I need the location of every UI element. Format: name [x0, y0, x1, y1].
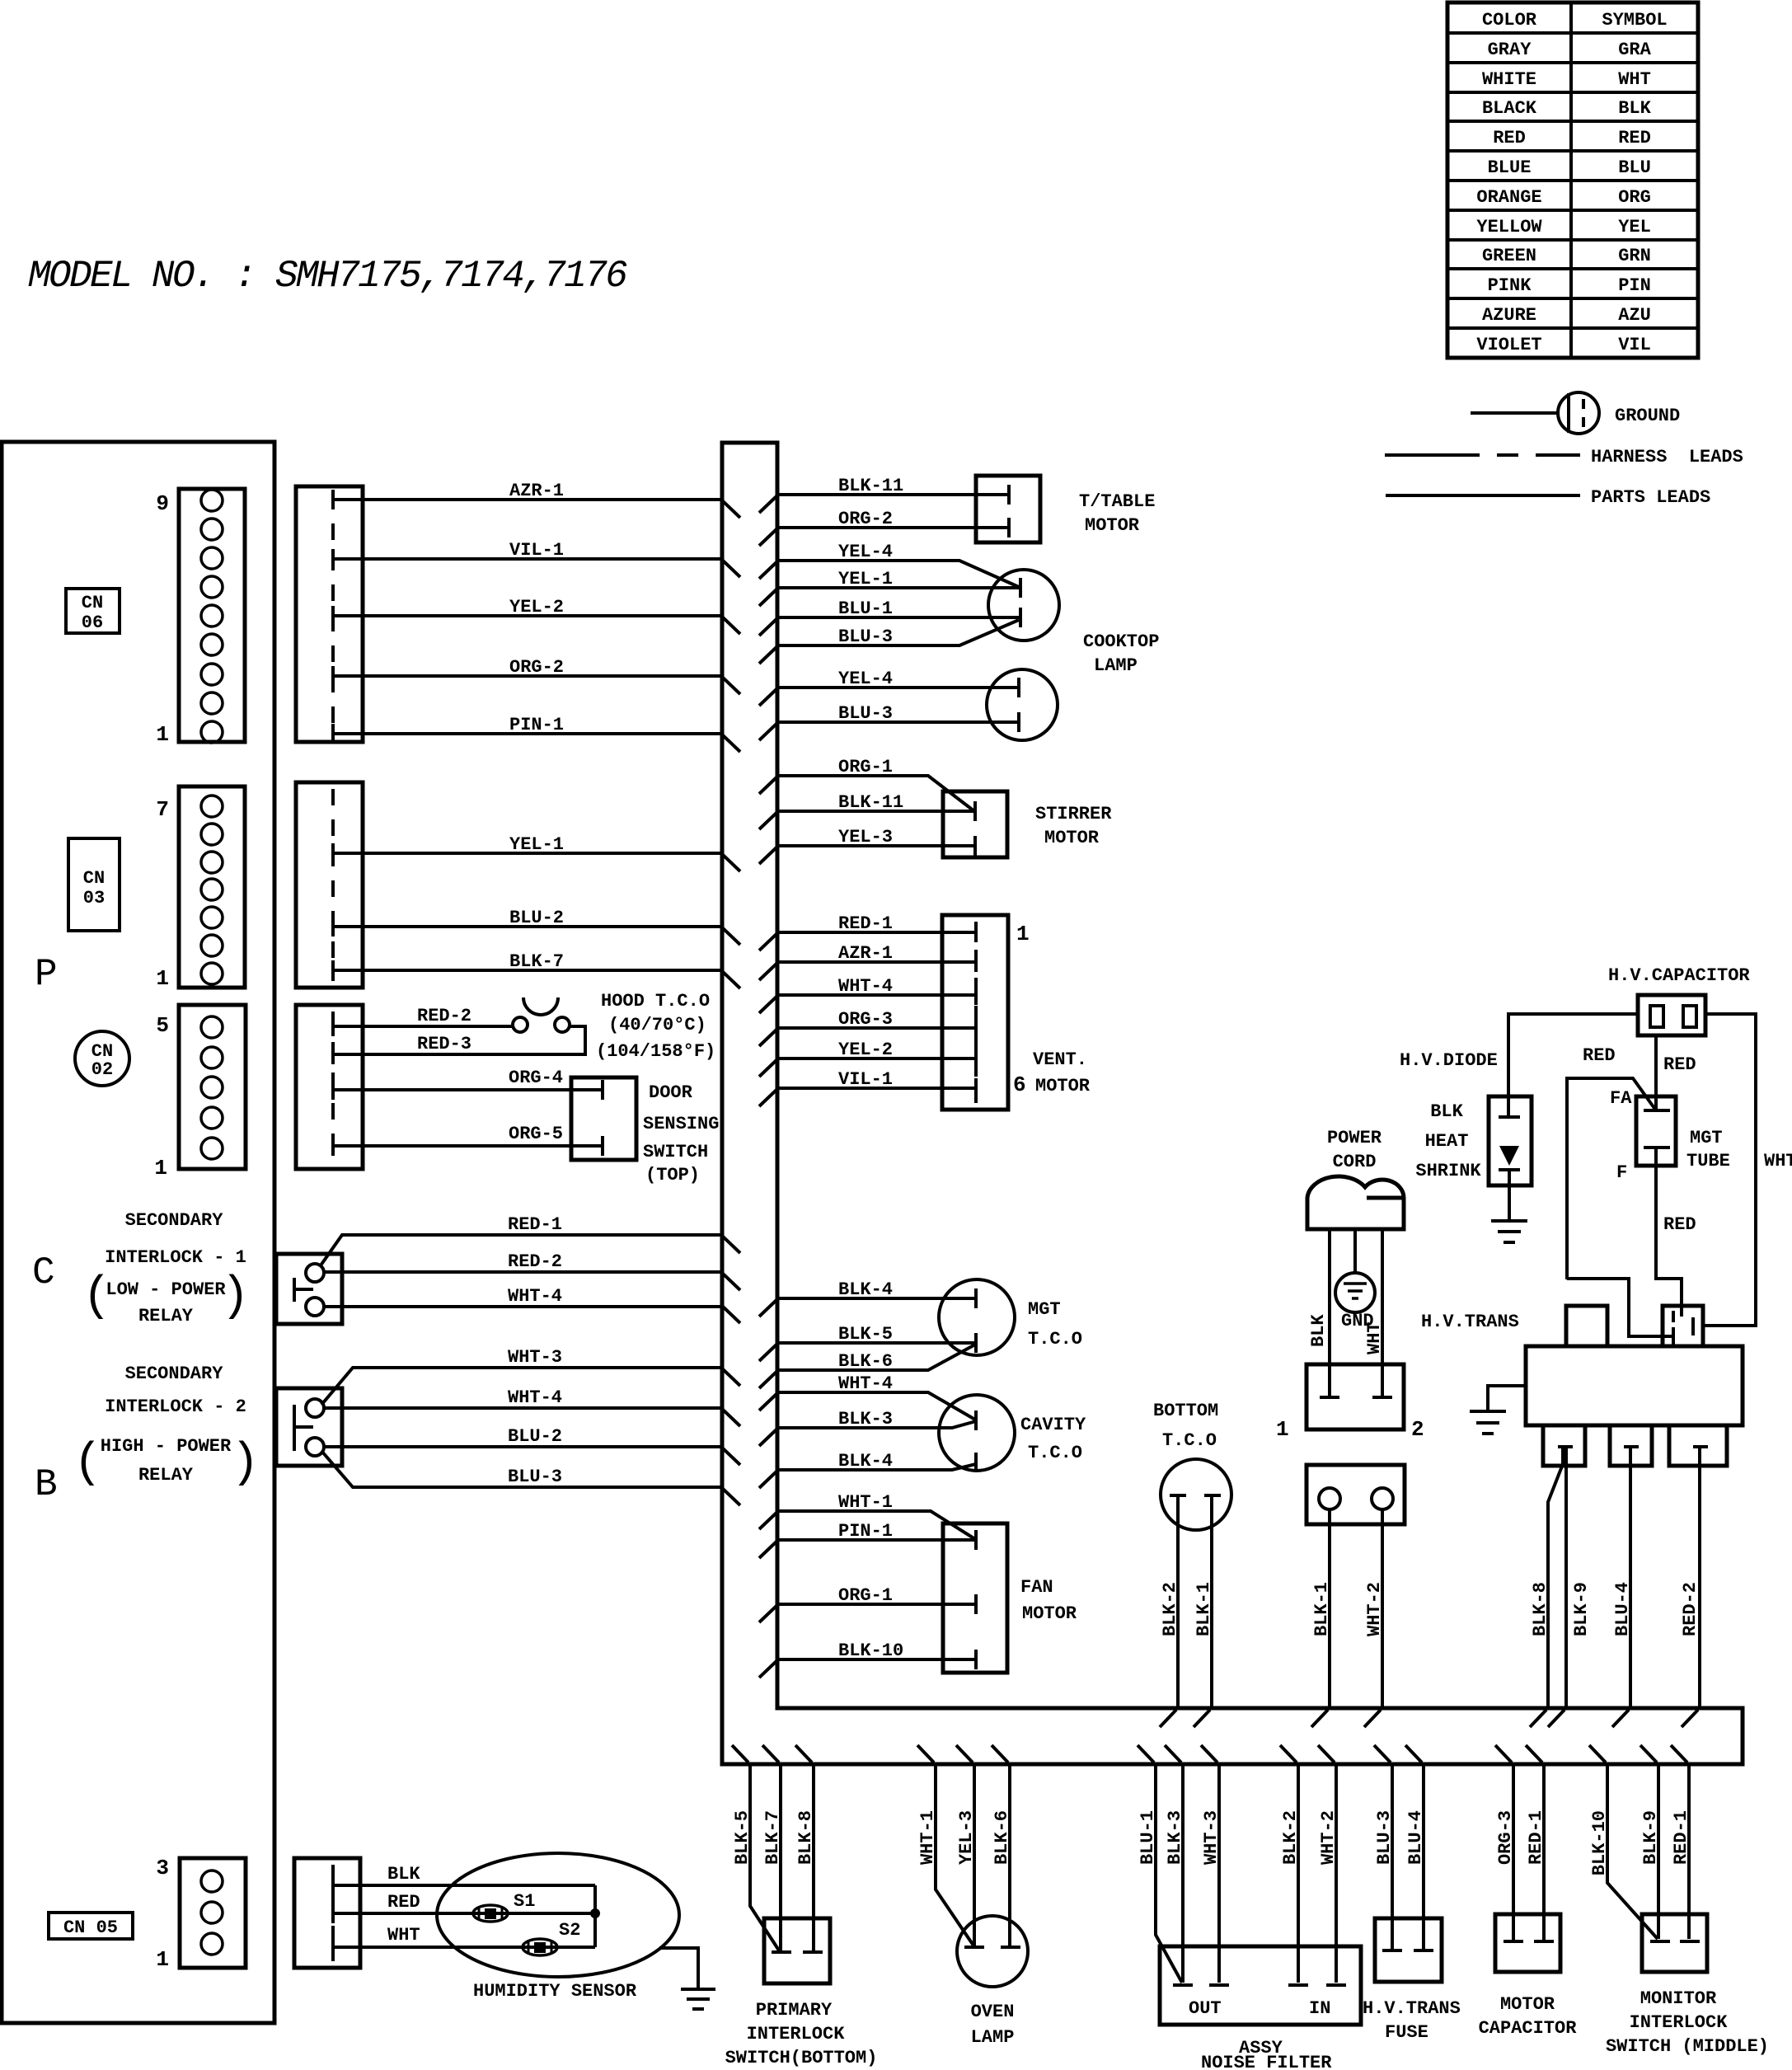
connector shell A (to CN06) pin tick: [331, 549, 335, 569]
trunk left tick y820: [723, 678, 740, 694]
MGT TCO circle: [939, 1279, 1015, 1355]
trunk right tick y1284: [759, 1060, 776, 1077]
relay 1 secondary interlock-1 switch: [276, 1254, 342, 1324]
svg-text:BLK-3: BLK-3: [838, 1409, 893, 1429]
CN03 label box: [68, 838, 120, 931]
power cord terminal box: [1306, 1364, 1404, 1429]
svg-text:BLK-8: BLK-8: [1530, 1582, 1550, 1636]
wire BLK-3 (noise filter): [1181, 1764, 1185, 1983]
wire BLK-6 (MGT TCO): [777, 1345, 975, 1370]
svg-text:BLK-10: BLK-10: [1589, 1810, 1610, 1875]
svg-text:H.V.TRANS: H.V.TRANS: [1421, 1312, 1519, 1332]
primary interlock switch box: [764, 1918, 830, 1983]
connector shell A (to CN06) pin tick: [331, 490, 335, 509]
wire BLU-1 (noise filter): [1156, 1764, 1182, 1983]
svg-text:RED: RED: [1663, 1054, 1696, 1075]
svg-text:COOKTOP: COOKTOP: [1083, 631, 1159, 652]
svg-text:BLU-3: BLU-3: [508, 1467, 562, 1487]
svg-text:06: 06: [82, 613, 103, 633]
CN06 pin circle 3: [201, 664, 223, 685]
svg-text:WHT-2: WHT-2: [1364, 1582, 1385, 1636]
CN05 pin circle 2: [201, 1902, 223, 1923]
svg-text:SWITCH (MIDDLE): SWITCH (MIDDLE): [1606, 2036, 1769, 2057]
svg-text:TUBE: TUBE: [1686, 1151, 1730, 1171]
CN05 pin circle 3: [201, 1871, 223, 1892]
H.V. transformer box: [1526, 1306, 1743, 1466]
thermistor S1: [473, 1905, 508, 1922]
svg-text:MODEL NO. : SMH7175,7174,7176: MODEL NO. : SMH7175,7174,7176: [28, 255, 627, 298]
fuse holder box: [1306, 1465, 1405, 1524]
wire GND (power cord): [1353, 1229, 1357, 1273]
connector CN02 5-pin: [179, 1005, 246, 1169]
svg-text:MOTOR: MOTOR: [1044, 828, 1100, 848]
CN03 pin circle 2: [201, 935, 223, 956]
transformer terminal tick a: [1672, 1311, 1675, 1322]
svg-text:MOTOR: MOTOR: [1085, 515, 1140, 536]
CN06 pin circle 6: [201, 576, 223, 598]
svg-text:AZR-1: AZR-1: [509, 481, 564, 501]
connector CN05 3-pin: [180, 1858, 246, 1968]
svg-text:6: 6: [1013, 1073, 1026, 1097]
trunk right tick y783: [759, 647, 776, 664]
trunk right tick y876: [759, 724, 776, 740]
svg-text:ORG-1: ORG-1: [838, 1585, 893, 1606]
svg-text:T.C.O: T.C.O: [1162, 1430, 1217, 1451]
wire BLU-2 (PCB to harness): [333, 925, 722, 928]
FAN MOTOR box: [943, 1523, 1007, 1673]
wire BLK-8 (transformer primary): [1548, 1448, 1563, 1708]
svg-text:YEL-2: YEL-2: [838, 1040, 893, 1060]
svg-text:H.V.CAPACITOR: H.V.CAPACITOR: [1608, 965, 1750, 986]
svg-text:SHRINK: SHRINK: [1415, 1161, 1481, 1181]
connector shell C (to CN02) pin tick: [331, 1080, 335, 1100]
connector shell C (to CN02) pin tick: [331, 1016, 335, 1036]
connector shell D (to CN05): [294, 1858, 360, 1968]
ground symbol (transformer): [1470, 1411, 1506, 1434]
CN05 pin circle 1: [201, 1933, 223, 1955]
wire BLU-3 (lamp1): [777, 620, 1019, 645]
svg-text:02: 02: [91, 1059, 113, 1080]
svg-text:1: 1: [1016, 922, 1030, 946]
wire BLK (power cord): [1328, 1229, 1331, 1397]
svg-text:RED-3: RED-3: [417, 1034, 471, 1054]
wire BLU-4 (fuse): [1422, 1764, 1425, 1950]
trunk right tick y1247: [759, 1030, 776, 1046]
svg-text:H.V.TRANS: H.V.TRANS: [1363, 1998, 1461, 2019]
svg-text:WHT-3: WHT-3: [1201, 1810, 1222, 1865]
T/TABLE MOTOR box: [976, 476, 1040, 542]
parts leads legend line: [1386, 494, 1580, 497]
svg-text:RED: RED: [1618, 128, 1651, 148]
connector CN06 9-pin: [179, 489, 245, 742]
svg-text:PIN: PIN: [1618, 275, 1651, 296]
svg-text:GRAY: GRAY: [1488, 40, 1532, 60]
lamp1 pin2 tick: [1019, 608, 1022, 627]
svg-text:INTERLOCK - 2: INTERLOCK - 2: [105, 1396, 246, 1417]
wire ORG-1 (fan): [777, 1603, 976, 1606]
svg-text:WHT: WHT: [387, 1925, 420, 1946]
band top tick x1878: [1530, 1710, 1546, 1727]
lamp1 pin1 tick: [1019, 578, 1022, 598]
wire ORG-4 (to door switch): [333, 1088, 603, 1091]
band bottom tick x1479: [1201, 1745, 1217, 1763]
band bottom tick x2049: [1671, 1745, 1687, 1763]
svg-text:ORANGE: ORANGE: [1476, 187, 1541, 208]
svg-text:S1: S1: [514, 1891, 535, 1912]
lamp2 pin2 tick: [1017, 712, 1020, 732]
svg-text:F: F: [1616, 1162, 1627, 1183]
wire WHT-4 (relay1): [324, 1305, 722, 1308]
wire BLU-4 (transformer): [1629, 1447, 1632, 1708]
svg-text:AZR-1: AZR-1: [838, 943, 893, 964]
trunk right tick y1167: [759, 964, 776, 980]
connector shell C (to CN02) mating dashed line: [331, 1012, 335, 1162]
trunk right tick y1946: [759, 1606, 776, 1622]
svg-text:DOOR: DOOR: [649, 1082, 693, 1103]
H.V. capacitor box: [1638, 995, 1705, 1035]
wire BLK-5 (MGT TCO): [777, 1341, 976, 1345]
svg-text:PARTS LEADS: PARTS LEADS: [1591, 487, 1710, 508]
svg-text:BLK-5: BLK-5: [838, 1324, 893, 1345]
wire RED filament FA: [1567, 1078, 1656, 1279]
svg-text:ORG-4: ORG-4: [509, 1068, 563, 1088]
trunk left tick y1659: [723, 1369, 740, 1386]
CN02 pin circle 3: [201, 1077, 223, 1098]
wire BLK vertical join: [593, 1885, 597, 1947]
H.V. diode: [1489, 1096, 1532, 1185]
svg-text:1: 1: [156, 1947, 169, 1972]
wire ORG-2 (t/table): [777, 526, 1009, 529]
connector shell A (to CN06) pin tick: [331, 724, 335, 744]
ground legend lead wire: [1471, 411, 1560, 415]
trunk right tick y1207: [759, 997, 776, 1013]
trunk left tick y1124: [723, 928, 740, 945]
wire RED (humidity): [333, 1912, 595, 1915]
svg-text:CN: CN: [83, 868, 105, 889]
svg-text:ORG-5: ORG-5: [509, 1124, 563, 1144]
band bottom tick x1575: [1280, 1745, 1297, 1763]
connector shell C (to CN02): [296, 1005, 363, 1169]
wire WHT-4 (vent motor): [777, 993, 976, 997]
svg-text:VIL-1: VIL-1: [838, 1069, 893, 1090]
trunk left tick y606: [723, 501, 740, 518]
lamp2 pin1 tick: [1017, 678, 1020, 697]
svg-text:SECONDARY: SECONDARY: [125, 1364, 224, 1384]
fan pin1 tick: [974, 1530, 978, 1550]
wire WHT-3 (noise filter): [1217, 1764, 1221, 1983]
wire BLK (humidity): [333, 1884, 595, 1887]
H.V.TRANS fuse box (lower): [1375, 1918, 1442, 1982]
svg-text:H.V.DIODE: H.V.DIODE: [1400, 1050, 1498, 1071]
connector shell D (to CN05) pin tick: [331, 1937, 335, 1957]
svg-text:YEL-1: YEL-1: [838, 569, 893, 589]
wire WHT-1 (fan): [777, 1511, 975, 1539]
svg-text:WHT-4: WHT-4: [508, 1286, 562, 1307]
wire WHT-4 (cavity TCO): [777, 1392, 975, 1420]
svg-text:BLK-1: BLK-1: [1194, 1582, 1214, 1636]
wire RED filament F: [1656, 1148, 1682, 1317]
svg-text:BLK: BLK: [1618, 98, 1651, 119]
svg-text:BLK-3: BLK-3: [1165, 1810, 1185, 1865]
trunk right tick y1575: [759, 1300, 776, 1317]
trunk left tick y1035: [723, 855, 740, 871]
wire BLK-4 (cavity TCO): [777, 1464, 976, 1470]
svg-text:BLU-3: BLU-3: [838, 627, 893, 647]
CN06 pin circle 8: [201, 519, 223, 540]
svg-text:RELAY: RELAY: [138, 1465, 194, 1486]
wire YEL-1 (PCB to harness): [333, 852, 722, 855]
trunk right tick y749: [759, 619, 776, 636]
connector shell C (to CN02) pin tick: [331, 1044, 335, 1064]
wire VIL-1 (PCB to harness): [333, 557, 722, 561]
vent pin tick RED-1: [974, 922, 978, 942]
ground legend symbol: [1558, 392, 1599, 434]
wire WHT-3 (relay2 to harness): [321, 1368, 722, 1405]
wire BLK-9 (monitor): [1657, 1764, 1660, 1939]
svg-text:INTERLOCK - 1: INTERLOCK - 1: [105, 1247, 246, 1268]
svg-text:GREEN: GREEN: [1482, 246, 1536, 266]
svg-text:AZURE: AZURE: [1482, 305, 1536, 326]
svg-text:BLACK: BLACK: [1482, 98, 1537, 119]
svg-text:POWER: POWER: [1327, 1128, 1382, 1148]
svg-text:CORD: CORD: [1333, 1152, 1377, 1172]
svg-text:SENSING: SENSING: [643, 1114, 719, 1134]
svg-text:ORG-3: ORG-3: [838, 1009, 893, 1030]
band bottom tick x1836: [1495, 1745, 1512, 1763]
svg-text:FAN: FAN: [1020, 1577, 1053, 1598]
band bottom tick x910: [732, 1745, 748, 1763]
svg-text:BLU-4: BLU-4: [1405, 1810, 1426, 1865]
connector shell B (to CN03) mating dashed line: [331, 789, 335, 981]
svg-text:ORG: ORG: [1618, 187, 1651, 208]
svg-text:MONITOR: MONITOR: [1640, 1988, 1717, 2009]
ground symbol (diode): [1491, 1221, 1527, 1242]
svg-text:RED-2: RED-2: [508, 1251, 562, 1272]
wire BLK-10 (fan): [777, 1658, 976, 1661]
svg-text:BLK: BLK: [1308, 1314, 1329, 1347]
harness trunk and band outline: [722, 443, 1743, 1764]
svg-text:FUSE: FUSE: [1385, 2022, 1428, 2043]
wire BLK-4 (MGT TCO): [777, 1297, 976, 1300]
band top tick x2062: [1682, 1710, 1698, 1727]
svg-text:WHT-4: WHT-4: [838, 976, 893, 997]
band bottom tick x1225: [992, 1745, 1008, 1763]
wire BLK-5 (primary interlock): [750, 1764, 779, 1950]
svg-text:BLK-5: BLK-5: [732, 1810, 753, 1865]
CN03 pin circle 3: [201, 907, 223, 928]
svg-text:BLK: BLK: [1430, 1101, 1463, 1122]
wire WHT-2 (fuse to band): [1381, 1509, 1384, 1708]
CN03 pin circle 7: [201, 796, 223, 817]
svg-text:(TOP): (TOP): [645, 1165, 700, 1185]
svg-text:HIGH - POWER: HIGH - POWER: [101, 1436, 232, 1457]
wire RED-1 (vent motor): [777, 931, 976, 934]
wire BLK-1 (bottom TCO): [1210, 1495, 1213, 1708]
svg-text:C: C: [32, 1251, 55, 1294]
wire BLK-6 (oven lamp): [1008, 1764, 1011, 1946]
band bottom tick x2012: [1640, 1745, 1657, 1763]
MGT TCO pin1 tick: [974, 1288, 978, 1308]
svg-text:RED-2: RED-2: [417, 1006, 471, 1026]
svg-text:GROUND: GROUND: [1615, 406, 1680, 426]
trunk left tick y1543: [723, 1274, 740, 1290]
svg-text:BLK-6: BLK-6: [838, 1351, 893, 1372]
door sensing switch box: [571, 1077, 636, 1160]
CN03 pin circle 5: [201, 852, 223, 873]
svg-text:1: 1: [156, 722, 169, 747]
svg-text:B: B: [35, 1463, 58, 1506]
svg-text:MGT: MGT: [1028, 1299, 1061, 1320]
MGT TCO pin2 tick: [974, 1333, 978, 1353]
svg-text:SWITCH: SWITCH: [643, 1142, 708, 1162]
trunk right tick y1629: [759, 1345, 776, 1361]
svg-text:MGT: MGT: [1690, 1128, 1723, 1148]
band bottom tick x1182: [956, 1745, 973, 1763]
wire YEL-3 (stirrer): [777, 844, 975, 847]
t/table pin2 tick: [1007, 518, 1011, 537]
harness leads legend line: [1385, 453, 1580, 457]
svg-text:BLK-2: BLK-2: [1160, 1582, 1180, 1636]
wire WHT (humidity): [333, 1946, 595, 1949]
fan pin2 tick: [974, 1594, 978, 1614]
VENT MOTOR connector box: [942, 915, 1008, 1110]
svg-text:BLK-7: BLK-7: [509, 951, 564, 972]
band bottom tick x1689: [1374, 1745, 1391, 1763]
svg-text:T.C.O: T.C.O: [1028, 1443, 1082, 1463]
wire PIN-1 (PCB to harness): [333, 732, 722, 735]
svg-text:(: (: [73, 1437, 102, 1490]
svg-text:GRA: GRA: [1618, 40, 1651, 60]
fan pin3 tick: [974, 1650, 978, 1669]
wire BLK-1 (fuse to band): [1328, 1509, 1331, 1708]
CN02 pin circle 4: [201, 1047, 223, 1068]
svg-text:WHT-4: WHT-4: [838, 1373, 893, 1394]
svg-text:03: 03: [83, 888, 105, 908]
trunk right tick y1783: [759, 1472, 776, 1488]
CN03 pin circle 4: [201, 879, 223, 900]
trunk left tick y1804: [723, 1489, 740, 1505]
svg-text:INTERLOCK: INTERLOCK: [747, 2024, 846, 2044]
wire ORG-1 (stirrer): [777, 776, 974, 811]
svg-text:HUMIDITY SENSOR: HUMIDITY SENSOR: [473, 1981, 637, 2002]
wire RED-2 (transformer): [1698, 1447, 1701, 1708]
vent pin tick AZR-1: [974, 952, 978, 972]
svg-text:SWITCH(BOTTOM): SWITCH(BOTTOM): [725, 2048, 878, 2068]
svg-text:): ): [221, 1270, 250, 1324]
svg-text:ORG-2: ORG-2: [509, 657, 564, 678]
wire RED-2 (to hood TCO): [333, 1025, 513, 1028]
wire YEL-2 (vent motor): [777, 1057, 976, 1060]
band bottom tick x1435: [1165, 1745, 1181, 1763]
STIRRER MOTOR box: [943, 791, 1007, 857]
wire YEL-4 (lamp2): [777, 686, 1019, 689]
svg-text:LAMP: LAMP: [1094, 655, 1138, 676]
wire RED-1 (motor cap): [1542, 1764, 1546, 1941]
svg-text:BLU-3: BLU-3: [838, 703, 893, 724]
svg-text:YEL-4: YEL-4: [838, 669, 893, 689]
connector shell B (to CN03) pin tick: [331, 843, 335, 863]
trunk right tick y1131: [759, 934, 776, 951]
svg-text:YEL-1: YEL-1: [509, 834, 564, 855]
svg-text:(104/158°F): (104/158°F): [596, 1041, 715, 1062]
svg-text:BLUE: BLUE: [1488, 157, 1532, 178]
CN06 pin circle 7: [201, 547, 223, 569]
svg-text:VIOLET: VIOLET: [1476, 335, 1541, 355]
wire YEL-3 (oven lamp): [973, 1764, 976, 1946]
wire BLK-9 (transformer primary): [1564, 1447, 1568, 1708]
svg-text:1: 1: [156, 966, 169, 991]
vent pin tick VIL-1: [974, 1078, 978, 1098]
wire ORG-2 (PCB to harness): [333, 674, 722, 678]
wire ORG-5 (to door switch): [333, 1144, 603, 1148]
svg-text:WHT: WHT: [1618, 69, 1651, 90]
wire diode to ground: [1508, 1185, 1511, 1221]
wire AZR-1 (vent motor): [777, 960, 976, 964]
svg-text:BLU-3: BLU-3: [1374, 1810, 1395, 1865]
svg-text:PIN-1: PIN-1: [509, 715, 564, 735]
trunk right tick y1868: [759, 1542, 776, 1558]
wire capacitor to diode: [1508, 1014, 1638, 1096]
svg-text:WHITE: WHITE: [1482, 69, 1536, 90]
CN06 pin circle 1: [201, 721, 223, 743]
svg-text:BLK-7: BLK-7: [762, 1810, 783, 1865]
wire color legend table: [1447, 2, 1698, 358]
wire WHT-4 (relay2): [324, 1406, 722, 1410]
svg-text:OUT: OUT: [1189, 1998, 1222, 2019]
svg-text:HEAT: HEAT: [1425, 1131, 1469, 1152]
connector shell B (to CN03) pin tick: [331, 960, 335, 980]
svg-text:RED: RED: [1493, 128, 1526, 148]
bottom TCO circle: [1161, 1459, 1231, 1530]
svg-text:CAVITY: CAVITY: [1020, 1415, 1086, 1435]
trunk left tick y1177: [723, 972, 740, 988]
svg-text:ORG-3: ORG-3: [1495, 1810, 1516, 1865]
oven lamp circle: [957, 1916, 1028, 1987]
svg-text:IN: IN: [1309, 1998, 1330, 2019]
svg-text:VENT.: VENT.: [1033, 1049, 1087, 1070]
band top tick x1677: [1364, 1710, 1381, 1727]
connector shell D (to CN05) pin tick: [331, 1875, 335, 1895]
svg-text:FA: FA: [1610, 1088, 1632, 1109]
motor capacitor box: [1495, 1914, 1560, 1972]
svg-text:WHT-3: WHT-3: [508, 1347, 562, 1368]
svg-text:BLK-2: BLK-2: [1280, 1810, 1301, 1865]
svg-text:5: 5: [156, 1013, 169, 1038]
trunk right tick y1833: [759, 1513, 776, 1529]
trunk left tick y1708: [723, 1410, 740, 1426]
monitor interlock switch box: [1642, 1914, 1707, 1972]
svg-text:7: 7: [156, 797, 169, 822]
wire YEL-4 (lamp1): [777, 561, 1019, 587]
svg-text:PRIMARY: PRIMARY: [756, 2000, 833, 2021]
wire transformer to chassis ground: [1488, 1386, 1526, 1411]
svg-text:MOTOR: MOTOR: [1500, 1994, 1555, 2015]
svg-text:WHT-1: WHT-1: [838, 1492, 893, 1513]
connector shell D (to CN05) pin tick: [331, 1903, 335, 1923]
thermistor S2: [523, 1939, 557, 1955]
trunk right tick y834: [759, 689, 776, 706]
wire VIL-1 (vent motor): [777, 1087, 976, 1090]
connector shell A (to CN06): [296, 486, 363, 742]
wire BLK-8 (primary interlock): [812, 1764, 815, 1950]
stirrer pin1 tick: [973, 801, 977, 821]
svg-text:YEL-3: YEL-3: [956, 1810, 977, 1865]
svg-text:RED: RED: [1663, 1214, 1696, 1235]
GND circle symbol: [1335, 1273, 1375, 1312]
trunk right tick y1689: [759, 1394, 776, 1411]
svg-text:PIN-1: PIN-1: [838, 1521, 893, 1542]
svg-text:T/TABLE: T/TABLE: [1079, 491, 1155, 512]
